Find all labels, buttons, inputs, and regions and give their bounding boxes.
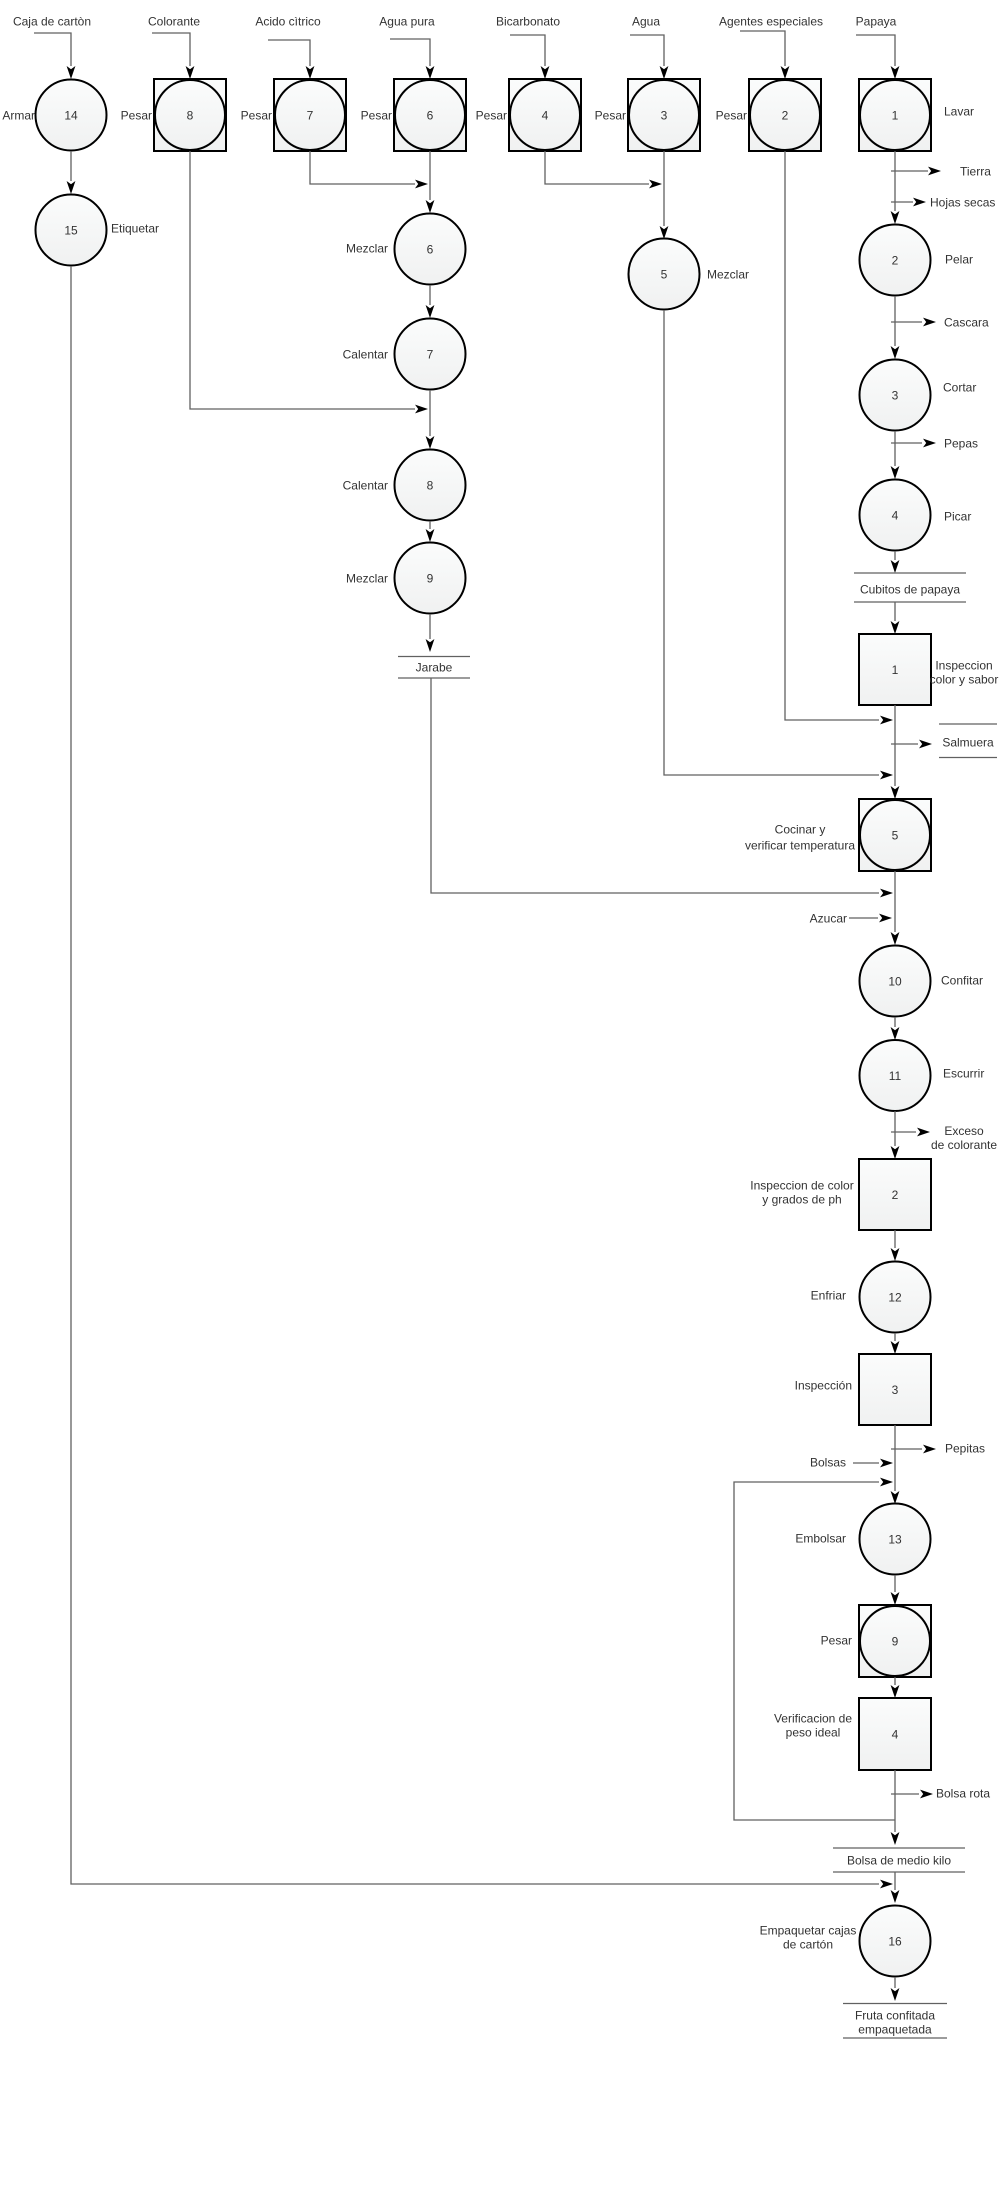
wire: combined 2 down right to main line: [785, 151, 879, 720]
arrowhead: [891, 1027, 900, 1040]
wire: inspection 3 to Embolsar 13: [894, 1425, 896, 1491]
combined operation-inspection 8 (Pesar Colorante): [154, 79, 226, 151]
wire: inspection 1 to Cocinar 5: [894, 705, 896, 786]
svg-text:Salmuera: Salmuera: [942, 735, 994, 749]
arrowhead: [879, 914, 892, 923]
operation circle 14 (Armar): [36, 80, 107, 151]
svg-text:Lavar: Lavar: [944, 104, 974, 118]
svg-text:14: 14: [64, 108, 78, 122]
wire: branch Pepitas: [891, 1448, 922, 1450]
arrowhead: [415, 180, 428, 189]
svg-text:5: 5: [892, 828, 899, 842]
operation circle 12 (Enfriar): [860, 1262, 931, 1333]
arrowhead: [186, 66, 195, 79]
svg-text:11: 11: [889, 1069, 902, 1083]
operation circle 10 (Confitar): [860, 946, 931, 1017]
svg-text:Inspeccion de color: Inspeccion de color: [750, 1178, 853, 1192]
svg-text:Inspección: Inspección: [795, 1378, 852, 1392]
combined operation-inspection 5 (Cocinar y verificar temperatura): [859, 799, 931, 871]
arrowhead: [781, 66, 790, 79]
arrowhead: [426, 66, 435, 79]
arrowhead: [891, 621, 900, 634]
svg-text:6: 6: [427, 242, 434, 256]
wire: waste branch Cascara: [891, 321, 922, 323]
svg-text:Pesar: Pesar: [821, 1633, 852, 1647]
wire: waste branch Tierra: [891, 170, 928, 172]
svg-text:1: 1: [892, 663, 899, 677]
arrowhead: [880, 1880, 893, 1889]
arrowhead: [880, 1478, 893, 1487]
svg-text:Pesar: Pesar: [241, 108, 272, 122]
svg-text:12: 12: [888, 1290, 902, 1304]
wire: combined 8 down to junction above Calentar 8: [190, 151, 415, 409]
svg-text:2: 2: [892, 253, 899, 267]
arrowhead: [891, 1491, 900, 1504]
arrowhead: [923, 318, 936, 327]
arrowhead: [928, 167, 941, 176]
svg-text:Armar: Armar: [2, 108, 35, 122]
wire: combined 4 down right to Agua column: [545, 151, 649, 184]
svg-text:Enfriar: Enfriar: [811, 1288, 846, 1302]
wire: Picar 4 to Cubitos store: [894, 551, 896, 560]
svg-text:Verificacion de: Verificacion de: [774, 1711, 852, 1725]
svg-text:Agentes especiales: Agentes especiales: [719, 14, 823, 28]
wire: branch Exceso de colorante: [891, 1131, 916, 1133]
svg-text:Pesar: Pesar: [476, 108, 507, 122]
svg-text:13: 13: [888, 1532, 902, 1546]
store label: Cubitos de papaya: [854, 573, 966, 602]
wire: Escurrir 11 to inspection 2: [894, 1111, 896, 1146]
arrowhead: [923, 1445, 936, 1454]
wire: Pesar 9 to verification 4: [894, 1677, 896, 1685]
svg-text:Pesar: Pesar: [121, 108, 152, 122]
arrowhead: [649, 180, 662, 189]
operation circle 2 (Pelar): [860, 225, 931, 296]
arrowhead: [891, 786, 900, 799]
svg-text:4: 4: [892, 508, 899, 522]
arrowhead: [920, 1790, 933, 1799]
svg-text:Agua pura: Agua pura: [379, 14, 435, 28]
arrowhead: [891, 1832, 900, 1845]
svg-text:peso ideal: peso ideal: [786, 1725, 841, 1739]
wire: Bicarbonato into top symbol: [510, 35, 545, 66]
wire: verification 4 to Bolsa de medio kilo store: [894, 1770, 896, 1832]
svg-text:Cocinar y: Cocinar y: [775, 822, 826, 836]
svg-text:y grados de ph: y grados de ph: [762, 1192, 841, 1206]
svg-text:Pepitas: Pepitas: [945, 1441, 985, 1455]
arrowhead: [880, 889, 893, 898]
operation circle 9 (Mezclar): [395, 543, 466, 614]
svg-text:4: 4: [542, 108, 549, 122]
arrowhead: [891, 211, 900, 224]
combined operation-inspection 3 (Pesar Agua): [628, 79, 700, 151]
svg-text:Empaquetar cajas: Empaquetar cajas: [760, 1923, 857, 1937]
svg-text:Tierra: Tierra: [960, 164, 991, 178]
svg-text:16: 16: [888, 1934, 902, 1948]
operation circle 4 (Picar): [860, 480, 931, 551]
svg-text:Pesar: Pesar: [361, 108, 392, 122]
wire: Mezclar 6 to Calentar 7: [429, 285, 431, 305]
store label: Salmuera: [939, 724, 997, 758]
svg-text:15: 15: [64, 223, 78, 237]
wire: Cortar 3 to Picar 4: [894, 431, 896, 466]
label Exceso de colorante: [931, 1124, 997, 1152]
wire: input Bolsas: [853, 1462, 879, 1464]
svg-text:Etiquetar: Etiquetar: [111, 221, 159, 235]
label Verificacion de peso ideal: [774, 1711, 852, 1739]
wire: combined 6 to Mezclar 6: [429, 151, 431, 200]
arrowhead: [891, 560, 900, 573]
svg-text:3: 3: [892, 388, 899, 402]
store label: Bolsa de medio kilo: [833, 1848, 965, 1872]
wire: Agua pura into top symbol: [390, 39, 430, 66]
operation circle 11 (Escurrir): [860, 1040, 931, 1111]
wire: Enfriar 12 to inspection 3: [894, 1333, 896, 1341]
operation circle 5 (Mezclar): [629, 239, 700, 310]
svg-text:9: 9: [427, 571, 434, 585]
wire: Acido cìtrico into top symbol: [268, 40, 310, 66]
arrowhead: [891, 346, 900, 359]
wire: 15 down and across to packing junction: [71, 266, 879, 1884]
arrowhead: [880, 1459, 893, 1468]
svg-text:Embolsar: Embolsar: [795, 1531, 846, 1545]
operation circle 16 (Empaquetar cajas de carton): [860, 1906, 931, 1977]
operation circle 13 (Embolsar): [860, 1504, 931, 1575]
svg-text:Papaya: Papaya: [856, 14, 897, 28]
arrowhead: [913, 198, 926, 207]
svg-text:de cartón: de cartón: [783, 1937, 833, 1951]
store label: Jarabe: [398, 657, 470, 679]
svg-text:7: 7: [307, 108, 314, 122]
label Empaquetar cajas de carton: [760, 1923, 857, 1951]
svg-text:Caja de cartòn: Caja de cartòn: [13, 14, 91, 28]
svg-text:verificar temperatura: verificar temperatura: [745, 838, 855, 852]
label Cocinar y verificar temperatura: [745, 822, 855, 852]
svg-text:Bolsas: Bolsas: [810, 1455, 846, 1469]
svg-text:color y sabor: color y sabor: [930, 672, 999, 686]
svg-text:Colorante: Colorante: [148, 14, 200, 28]
arrowhead: [426, 200, 435, 213]
svg-text:Fruta confitada: Fruta confitada: [855, 2008, 935, 2022]
svg-text:de colorante: de colorante: [931, 1138, 997, 1152]
arrowhead: [891, 1146, 900, 1159]
wire: input Azucar: [849, 917, 878, 919]
svg-text:Picar: Picar: [944, 509, 971, 523]
combined operation-inspection 4 (Pesar Bicarbonato): [509, 79, 581, 151]
combined operation-inspection 2 (Pesar Agentes especiales): [749, 79, 821, 151]
wire: Mezclar 5 down right to main line: [664, 310, 879, 775]
operation circle 3 (Cortar): [860, 360, 931, 431]
wire: 14 to 15: [70, 151, 72, 181]
inspection square 4 (Verificacion de peso ideal): [859, 1698, 931, 1770]
arrowhead: [891, 932, 900, 945]
arrowhead: [67, 66, 76, 79]
operation circle 6 (Mezclar): [395, 214, 466, 285]
arrowhead: [426, 305, 435, 318]
inspection square 3 (Inspeccion): [859, 1354, 931, 1425]
store label: Fruta confitada empaquetada: [843, 2004, 947, 2039]
wire: Cocinar 5 to Confitar 10: [894, 871, 896, 932]
svg-text:Jarabe: Jarabe: [416, 660, 453, 674]
operation circle 8 (Calentar): [395, 450, 466, 521]
svg-text:1: 1: [892, 108, 899, 122]
svg-text:Pesar: Pesar: [716, 108, 747, 122]
svg-text:2: 2: [782, 108, 789, 122]
arrowhead: [917, 1128, 930, 1137]
svg-text:Pelar: Pelar: [945, 252, 973, 266]
arrowhead: [891, 1890, 900, 1903]
wire: Embolsar 13 to Pesar 9: [894, 1575, 896, 1592]
svg-text:7: 7: [427, 347, 434, 361]
arrowhead: [415, 405, 428, 414]
arrowhead: [426, 436, 435, 449]
wire: branch Bolsa rota: [891, 1793, 919, 1795]
svg-text:Cubitos de papaya: Cubitos de papaya: [860, 582, 960, 596]
svg-text:5: 5: [661, 267, 668, 281]
arrowhead: [660, 226, 669, 239]
wire: rework loop Bolsa rota back to Embolsar: [734, 1482, 895, 1820]
wire: Bolsa de medio kilo to Empaquetar 16: [894, 1872, 896, 1890]
combined operation-inspection 1 (Lavar Papaya): [859, 79, 931, 151]
wire: Confitar 10 to Escurrir 11: [894, 1017, 896, 1027]
arrowhead: [880, 716, 893, 725]
combined operation-inspection 9 (Pesar): [859, 1605, 931, 1677]
inspection square 2 (Inspeccion de color y grados de ph): [859, 1159, 931, 1230]
svg-text:Bicarbonato: Bicarbonato: [496, 14, 560, 28]
svg-text:empaquetada: empaquetada: [858, 2022, 932, 2036]
svg-text:Pesar: Pesar: [595, 108, 626, 122]
svg-text:Cascara: Cascara: [944, 315, 989, 329]
svg-text:4: 4: [892, 1727, 899, 1741]
svg-text:Agua: Agua: [632, 14, 660, 28]
combined operation-inspection 7 (Pesar Acido citrico): [274, 79, 346, 151]
wire: Lavar 1 to Pelar 2: [894, 151, 896, 211]
wire: Cubitos to inspection 1: [894, 602, 896, 621]
wire: inspection 2 to Enfriar 12: [894, 1230, 896, 1248]
wire: Calentar 7 to Calentar 8: [429, 390, 431, 436]
svg-text:8: 8: [427, 478, 434, 492]
arrowhead: [306, 66, 315, 79]
svg-text:Bolsa de medio kilo: Bolsa de medio kilo: [847, 1853, 951, 1867]
svg-text:Confitar: Confitar: [941, 973, 983, 987]
arrowhead: [426, 529, 435, 542]
operation circle 15 (Etiquetar): [36, 195, 107, 266]
wire: waste branch Hojas secas: [891, 201, 913, 203]
wire: waste branch Pepas: [891, 442, 922, 444]
wire: Caja de cartòn into top symbol: [34, 33, 71, 66]
arrowhead: [426, 639, 435, 652]
wire: branch Salmuera: [891, 743, 918, 745]
arrowhead: [891, 66, 900, 79]
wire: combined 7 down right to Agua pura column: [310, 151, 415, 184]
svg-text:Exceso: Exceso: [944, 1124, 984, 1138]
wire: Calentar 8 to Mezclar 9: [429, 521, 431, 529]
arrowhead: [891, 1341, 900, 1354]
svg-text:Mezclar: Mezclar: [707, 267, 749, 281]
arrowhead: [923, 439, 936, 448]
arrowhead: [891, 466, 900, 479]
wire: Agentes especiales into top symbol: [740, 31, 785, 66]
svg-text:3: 3: [661, 108, 668, 122]
arrowhead: [541, 66, 550, 79]
svg-text:8: 8: [187, 108, 194, 122]
wire: combined 3 to Mezclar 5: [663, 151, 665, 226]
arrowhead: [891, 1248, 900, 1261]
label Inspeccion de color y grados de ph: [750, 1178, 853, 1206]
arrowhead: [880, 771, 893, 780]
wire: Agua into top symbol: [630, 35, 664, 66]
arrowhead: [660, 66, 669, 79]
svg-text:9: 9: [892, 1634, 899, 1648]
arrowhead: [919, 740, 932, 749]
svg-text:Calentar: Calentar: [343, 347, 388, 361]
svg-text:6: 6: [427, 108, 434, 122]
svg-text:3: 3: [892, 1383, 899, 1397]
svg-text:2: 2: [892, 1188, 899, 1202]
wire: Empaquetar 16 to final store: [894, 1977, 896, 1988]
svg-text:Mezclar: Mezclar: [346, 241, 388, 255]
operation circle 7 (Calentar): [395, 319, 466, 390]
arrowhead: [891, 1685, 900, 1698]
svg-text:Calentar: Calentar: [343, 478, 388, 492]
svg-text:Acido cìtrico: Acido cìtrico: [255, 14, 321, 28]
svg-text:Hojas secas: Hojas secas: [930, 195, 995, 209]
wire: Pelar 2 to Cortar 3: [894, 296, 896, 346]
wire: Mezclar 9 to Jarabe store: [429, 614, 431, 639]
inspection square 1 (Inspeccion color y sabor): [859, 634, 931, 705]
wire: Colorante into top symbol: [152, 33, 190, 66]
arrowhead: [67, 181, 76, 194]
svg-text:Escurrir: Escurrir: [943, 1066, 984, 1080]
svg-text:Bolsa rota: Bolsa rota: [936, 1786, 990, 1800]
svg-text:Pepas: Pepas: [944, 436, 978, 450]
wire: Papaya into top symbol: [856, 35, 895, 66]
svg-text:10: 10: [888, 974, 902, 988]
combined operation-inspection 6 (Pesar Agua pura): [394, 79, 466, 151]
svg-text:Azucar: Azucar: [810, 911, 847, 925]
svg-text:Inspeccion: Inspeccion: [935, 658, 992, 672]
arrowhead: [891, 1988, 900, 2001]
svg-text:Cortar: Cortar: [943, 380, 976, 394]
arrowhead: [891, 1592, 900, 1605]
label Inspeccion color y sabor: [930, 658, 999, 686]
wire: Jarabe down and right to main line: [431, 678, 879, 893]
svg-text:Mezclar: Mezclar: [346, 571, 388, 585]
